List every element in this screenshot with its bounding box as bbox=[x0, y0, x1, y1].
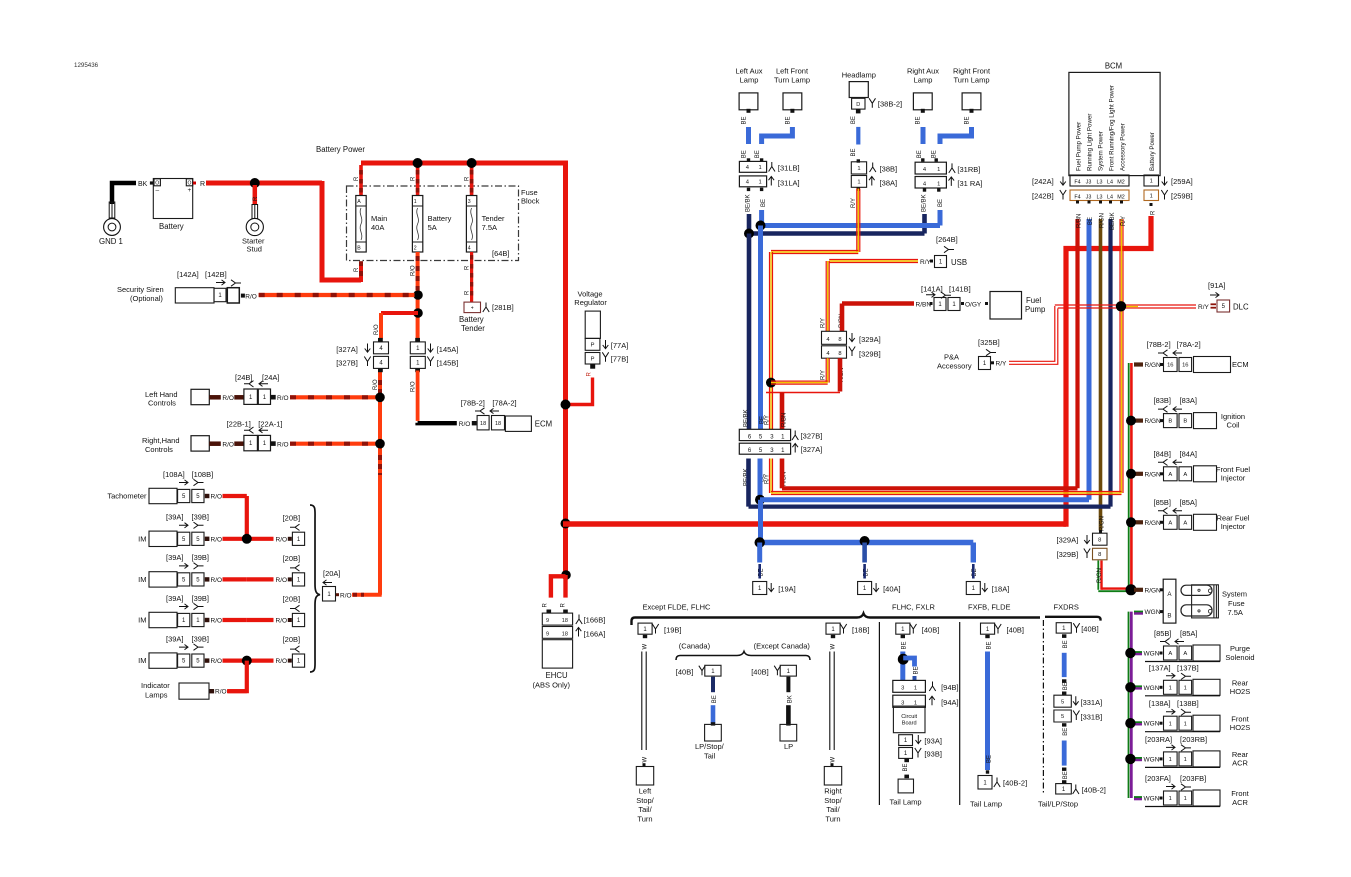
svg-text:Fuse: Fuse bbox=[1228, 599, 1245, 608]
svg-text:[331B]: [331B] bbox=[1081, 713, 1103, 722]
svg-text:[78A-2]: [78A-2] bbox=[1177, 340, 1201, 349]
svg-text:Turn: Turn bbox=[637, 814, 652, 823]
svg-text:R/BN: R/BN bbox=[1077, 214, 1083, 228]
svg-text:WGN: WGN bbox=[1144, 651, 1160, 658]
svg-text:[85B]: [85B] bbox=[1154, 629, 1172, 638]
svg-text:Regulator: Regulator bbox=[574, 298, 607, 307]
svg-text:[331A]: [331A] bbox=[1081, 698, 1103, 707]
svg-text:DLC: DLC bbox=[1233, 303, 1249, 312]
svg-text:FLHC, FXLR: FLHC, FXLR bbox=[892, 603, 936, 612]
svg-text:Battery: Battery bbox=[459, 315, 484, 324]
svg-text:[145B]: [145B] bbox=[437, 359, 459, 368]
svg-text:5A: 5A bbox=[428, 223, 437, 232]
svg-text:R: R bbox=[200, 181, 205, 188]
svg-text:[40B]: [40B] bbox=[676, 668, 694, 677]
svg-text:[203FA]: [203FA] bbox=[1145, 774, 1171, 783]
svg-text:[39A]: [39A] bbox=[166, 634, 184, 643]
svg-text:WGN: WGN bbox=[1145, 609, 1161, 616]
svg-text:FXFB, FLDE: FXFB, FLDE bbox=[968, 603, 1011, 612]
svg-text:System: System bbox=[1222, 590, 1247, 599]
svg-text:[145A]: [145A] bbox=[437, 345, 459, 354]
svg-text:Front Running/Fog Light Power: Front Running/Fog Light Power bbox=[1109, 85, 1116, 171]
svg-text:[142B]: [142B] bbox=[205, 270, 227, 279]
svg-text:R/O: R/O bbox=[340, 592, 352, 599]
svg-text:[259A]: [259A] bbox=[1171, 177, 1193, 186]
svg-text:R/GN: R/GN bbox=[1100, 213, 1106, 228]
svg-text:[325B]: [325B] bbox=[978, 338, 1000, 347]
svg-text:A: A bbox=[357, 199, 361, 205]
svg-text:[31RB]: [31RB] bbox=[957, 165, 980, 174]
svg-text:[108B]: [108B] bbox=[192, 470, 214, 479]
svg-text:5: 5 bbox=[1061, 714, 1064, 720]
svg-text:ECM: ECM bbox=[535, 420, 552, 429]
svg-text:Lamp: Lamp bbox=[914, 75, 933, 84]
svg-text:[78A-2]: [78A-2] bbox=[492, 399, 516, 408]
svg-text:8: 8 bbox=[838, 351, 841, 357]
svg-text:Controls: Controls bbox=[148, 399, 176, 408]
svg-text:O: O bbox=[188, 180, 192, 186]
svg-text:[85A]: [85A] bbox=[1180, 629, 1198, 638]
svg-text:R: R bbox=[543, 603, 549, 608]
svg-text:Stop/: Stop/ bbox=[636, 796, 654, 805]
svg-text:BE/BK: BE/BK bbox=[744, 409, 750, 427]
svg-text:System Power: System Power bbox=[1098, 131, 1105, 171]
svg-text:BE: BE bbox=[938, 199, 944, 207]
svg-text:A: A bbox=[1168, 520, 1172, 526]
svg-text:R: R bbox=[354, 267, 360, 272]
svg-text:R: R bbox=[253, 196, 259, 201]
svg-text:[64B]: [64B] bbox=[492, 249, 510, 258]
svg-text:18: 18 bbox=[562, 631, 568, 637]
svg-text:Tail Lamp: Tail Lamp bbox=[890, 798, 922, 807]
svg-text:O: O bbox=[155, 180, 159, 186]
svg-text:18: 18 bbox=[562, 618, 568, 624]
svg-text:[203RB]: [203RB] bbox=[1180, 735, 1207, 744]
svg-text:1: 1 bbox=[1184, 721, 1187, 727]
svg-text:4: 4 bbox=[468, 246, 471, 252]
svg-text:1: 1 bbox=[1184, 796, 1187, 802]
svg-text:IM: IM bbox=[138, 656, 146, 665]
svg-text:BE/BK: BE/BK bbox=[1110, 212, 1116, 230]
svg-text:IM: IM bbox=[138, 534, 146, 543]
svg-text:1: 1 bbox=[937, 167, 940, 173]
svg-text:Lamps: Lamps bbox=[145, 690, 168, 699]
svg-text:Stop/: Stop/ bbox=[824, 796, 842, 805]
svg-text:F4: F4 bbox=[1074, 194, 1080, 200]
svg-text:Stud: Stud bbox=[247, 245, 262, 254]
svg-text:[78B-2]: [78B-2] bbox=[1147, 340, 1171, 349]
svg-text:[40B]: [40B] bbox=[751, 668, 769, 677]
svg-text:Battery Power: Battery Power bbox=[1149, 132, 1156, 171]
svg-text:R/O: R/O bbox=[277, 395, 289, 402]
svg-text:R/O: R/O bbox=[373, 379, 379, 390]
svg-text:R/GN: R/GN bbox=[1145, 471, 1162, 478]
svg-text:R: R bbox=[586, 372, 592, 377]
svg-text:[329A]: [329A] bbox=[859, 335, 881, 344]
svg-text:[22B-1]: [22B-1] bbox=[227, 419, 251, 428]
svg-text:B: B bbox=[1183, 419, 1187, 425]
svg-text:BE: BE bbox=[761, 199, 767, 207]
svg-text:LP/Stop/: LP/Stop/ bbox=[695, 742, 725, 751]
svg-text:Tail Lamp: Tail Lamp bbox=[970, 800, 1002, 809]
svg-text:R: R bbox=[561, 603, 567, 608]
svg-text:Turn Lamp: Turn Lamp bbox=[954, 75, 990, 84]
svg-text:(Canada): (Canada) bbox=[679, 642, 711, 651]
svg-text:W: W bbox=[830, 644, 836, 650]
svg-text:[77B]: [77B] bbox=[611, 355, 629, 364]
svg-text:5: 5 bbox=[1061, 699, 1064, 705]
svg-text:1: 1 bbox=[1184, 685, 1187, 691]
svg-text:[78B-2]: [78B-2] bbox=[461, 399, 485, 408]
svg-text:2: 2 bbox=[414, 246, 417, 252]
svg-text:[18A]: [18A] bbox=[992, 585, 1010, 594]
svg-text:BK: BK bbox=[138, 181, 148, 188]
svg-text:1: 1 bbox=[1150, 193, 1153, 199]
svg-text:R: R bbox=[465, 290, 471, 295]
svg-text:[137B]: [137B] bbox=[1177, 663, 1199, 672]
svg-text:BE: BE bbox=[742, 150, 748, 158]
svg-text:IM: IM bbox=[138, 575, 146, 584]
svg-text:R: R bbox=[354, 176, 360, 181]
svg-text:Battery Power: Battery Power bbox=[316, 145, 365, 154]
svg-text:BE: BE bbox=[755, 150, 761, 158]
svg-text:W: W bbox=[830, 757, 836, 763]
svg-text:A: A bbox=[1183, 651, 1187, 657]
svg-text:[327B]: [327B] bbox=[801, 431, 823, 440]
svg-text:USB: USB bbox=[951, 258, 967, 267]
svg-text:Fuel Pump Power: Fuel Pump Power bbox=[1076, 122, 1083, 171]
svg-text:R/O: R/O bbox=[222, 442, 234, 449]
svg-text:BCM: BCM bbox=[1105, 62, 1122, 71]
svg-text:BE: BE bbox=[917, 150, 923, 158]
svg-text:[281B]: [281B] bbox=[492, 303, 514, 312]
svg-text:R/Y: R/Y bbox=[1121, 216, 1127, 226]
svg-text:GND 1: GND 1 bbox=[99, 237, 123, 246]
svg-text:B: B bbox=[1167, 613, 1171, 620]
svg-text:[242B]: [242B] bbox=[1032, 192, 1054, 201]
svg-text:BE/BK: BE/BK bbox=[922, 194, 928, 212]
svg-text:[142A]: [142A] bbox=[177, 270, 199, 279]
svg-text:Turn: Turn bbox=[825, 814, 840, 823]
svg-text:[91A]: [91A] bbox=[1208, 281, 1226, 290]
svg-text:Block: Block bbox=[521, 197, 540, 206]
svg-text:1: 1 bbox=[758, 165, 761, 171]
svg-text:[94B]: [94B] bbox=[941, 683, 959, 692]
svg-text:[20B]: [20B] bbox=[283, 595, 301, 604]
svg-text:[137A]: [137A] bbox=[1149, 663, 1171, 672]
svg-text:R/GN: R/GN bbox=[1100, 516, 1106, 531]
svg-text:[203RA]: [203RA] bbox=[1145, 735, 1172, 744]
svg-text:Tail: Tail bbox=[704, 751, 716, 760]
svg-text:BE: BE bbox=[851, 148, 857, 156]
svg-text:[83B]: [83B] bbox=[1154, 396, 1172, 405]
svg-text:L3: L3 bbox=[1097, 179, 1103, 185]
svg-text:BE: BE bbox=[902, 641, 908, 649]
svg-text:R/Y: R/Y bbox=[920, 259, 932, 266]
svg-text:Tachometer: Tachometer bbox=[107, 492, 147, 501]
svg-text:A: A bbox=[1168, 472, 1172, 478]
svg-text:BE: BE bbox=[851, 116, 857, 124]
svg-text:[18B]: [18B] bbox=[852, 626, 870, 635]
svg-text:Indicator: Indicator bbox=[141, 681, 170, 690]
svg-text:BE: BE bbox=[913, 666, 919, 674]
svg-text:(Optional): (Optional) bbox=[130, 294, 163, 303]
svg-text:BE: BE bbox=[964, 116, 970, 124]
svg-text:R/O: R/O bbox=[411, 265, 417, 276]
svg-text:Left Aux: Left Aux bbox=[735, 67, 762, 76]
svg-text:R/O: R/O bbox=[222, 395, 234, 402]
svg-text:[329A]: [329A] bbox=[1057, 536, 1079, 545]
svg-text:B: B bbox=[1168, 419, 1172, 425]
svg-text:Coil: Coil bbox=[1227, 420, 1240, 429]
svg-text:[141B]: [141B] bbox=[949, 285, 971, 294]
svg-text:R/O: R/O bbox=[276, 577, 288, 584]
svg-text:Circuit: Circuit bbox=[901, 714, 917, 720]
svg-text:[31LB]: [31LB] bbox=[778, 164, 800, 173]
svg-text:[19A]: [19A] bbox=[778, 585, 796, 594]
svg-text:1: 1 bbox=[1169, 685, 1172, 691]
svg-text:[84B]: [84B] bbox=[1154, 449, 1172, 458]
svg-text:R/GN: R/GN bbox=[1145, 362, 1162, 369]
svg-text:7.5A: 7.5A bbox=[482, 223, 497, 232]
svg-text:BE: BE bbox=[1063, 682, 1069, 690]
svg-text:BE: BE bbox=[741, 116, 747, 124]
svg-text:[39B]: [39B] bbox=[192, 594, 210, 603]
svg-text:Tail/: Tail/ bbox=[638, 805, 652, 814]
svg-text:[77A]: [77A] bbox=[611, 341, 629, 350]
svg-text:+: + bbox=[471, 305, 474, 311]
svg-text:A: A bbox=[1183, 520, 1187, 526]
svg-text:Pump: Pump bbox=[1025, 305, 1046, 314]
svg-text:Right Aux: Right Aux bbox=[907, 67, 939, 76]
svg-text:[20B]: [20B] bbox=[283, 513, 301, 522]
svg-text:LP: LP bbox=[784, 742, 793, 751]
svg-text:Headlamp: Headlamp bbox=[842, 70, 876, 79]
svg-text:(Except Canada): (Except Canada) bbox=[754, 642, 811, 651]
svg-text:[40B]: [40B] bbox=[1081, 625, 1099, 634]
svg-text:[39B]: [39B] bbox=[192, 634, 210, 643]
svg-text:BE: BE bbox=[785, 116, 791, 124]
svg-text:[85B]: [85B] bbox=[1154, 498, 1172, 507]
svg-text:BE: BE bbox=[932, 150, 938, 158]
svg-text:R: R bbox=[410, 176, 416, 181]
svg-text:BE: BE bbox=[1088, 217, 1094, 225]
svg-text:[94A]: [94A] bbox=[941, 698, 959, 707]
svg-text:BE: BE bbox=[712, 695, 718, 703]
svg-text:R/Y: R/Y bbox=[851, 198, 857, 208]
svg-text:Accessory Power: Accessory Power bbox=[1120, 123, 1127, 171]
svg-text:Injector: Injector bbox=[1221, 474, 1246, 483]
svg-text:BE: BE bbox=[1063, 771, 1069, 779]
svg-text:[24A]: [24A] bbox=[262, 373, 280, 382]
svg-text:R/GN: R/GN bbox=[1145, 587, 1162, 594]
svg-text:Left Front: Left Front bbox=[776, 67, 809, 76]
svg-text:Controls: Controls bbox=[145, 445, 173, 454]
svg-text:R/O: R/O bbox=[211, 536, 223, 543]
svg-text:R: R bbox=[1151, 210, 1157, 215]
svg-text:[20B]: [20B] bbox=[283, 554, 301, 563]
svg-text:R/BN: R/BN bbox=[916, 302, 932, 309]
svg-text:BE: BE bbox=[1063, 640, 1069, 648]
svg-text:[20B]: [20B] bbox=[283, 635, 301, 644]
svg-text:WGN: WGN bbox=[1144, 756, 1160, 763]
svg-text:P: P bbox=[591, 342, 595, 348]
svg-text:[93A]: [93A] bbox=[924, 737, 942, 746]
svg-text:3: 3 bbox=[901, 700, 904, 706]
svg-text:+: + bbox=[188, 187, 192, 194]
svg-text:R/O: R/O bbox=[245, 293, 257, 300]
svg-text:FXDRS: FXDRS bbox=[1054, 603, 1079, 612]
svg-text:7.5A: 7.5A bbox=[1228, 608, 1243, 617]
svg-text:Tender: Tender bbox=[461, 324, 485, 333]
svg-text:1: 1 bbox=[1184, 757, 1187, 763]
svg-text:1: 1 bbox=[914, 700, 917, 706]
svg-text:[166A]: [166A] bbox=[584, 630, 606, 639]
svg-text:[83A]: [83A] bbox=[1180, 396, 1198, 405]
svg-text:HO2S: HO2S bbox=[1230, 723, 1250, 732]
svg-text:1: 1 bbox=[1150, 179, 1153, 185]
svg-text:L4: L4 bbox=[1107, 194, 1113, 200]
svg-text:1: 1 bbox=[1169, 721, 1172, 727]
svg-text:Right Front: Right Front bbox=[953, 67, 991, 76]
svg-text:[20A]: [20A] bbox=[323, 569, 341, 578]
svg-text:BE: BE bbox=[760, 416, 766, 424]
svg-text:R/Y: R/Y bbox=[1198, 304, 1210, 311]
svg-text:P&A: P&A bbox=[944, 353, 959, 362]
svg-text:BE: BE bbox=[986, 755, 992, 763]
svg-text:[31 RA]: [31 RA] bbox=[957, 179, 982, 188]
svg-text:[40B-2]: [40B-2] bbox=[1003, 779, 1027, 788]
svg-text:3: 3 bbox=[468, 199, 471, 205]
svg-text:[38B-2]: [38B-2] bbox=[878, 100, 902, 109]
svg-text:A: A bbox=[1183, 472, 1187, 478]
svg-text:[22A-1]: [22A-1] bbox=[258, 419, 282, 428]
svg-text:[327B]: [327B] bbox=[336, 359, 358, 368]
svg-text:3: 3 bbox=[901, 686, 904, 692]
svg-text:W: W bbox=[642, 644, 648, 650]
svg-text:M2: M2 bbox=[1117, 179, 1125, 185]
svg-text:Battery: Battery bbox=[159, 222, 184, 231]
svg-text:R/O: R/O bbox=[276, 618, 288, 625]
svg-text:R/O: R/O bbox=[211, 658, 223, 665]
svg-text:Fuel: Fuel bbox=[1026, 296, 1041, 305]
svg-text:Turn Lamp: Turn Lamp bbox=[774, 75, 810, 84]
svg-text:1: 1 bbox=[857, 166, 860, 172]
svg-text:[242A]: [242A] bbox=[1032, 177, 1054, 186]
svg-text:1: 1 bbox=[1169, 757, 1172, 763]
svg-text:[166B]: [166B] bbox=[584, 616, 606, 625]
svg-text:Tail/: Tail/ bbox=[826, 805, 840, 814]
svg-text:18: 18 bbox=[480, 421, 486, 427]
svg-text:Left Hand: Left Hand bbox=[145, 390, 178, 399]
svg-text:R/O: R/O bbox=[276, 536, 288, 543]
svg-text:[38A]: [38A] bbox=[880, 179, 898, 188]
svg-text:HO2S: HO2S bbox=[1230, 687, 1250, 696]
svg-text:Right: Right bbox=[824, 787, 842, 796]
svg-text:R/O: R/O bbox=[211, 577, 223, 584]
svg-text:[264B]: [264B] bbox=[936, 235, 958, 244]
svg-text:Accessory: Accessory bbox=[937, 362, 972, 371]
svg-text:[24B]: [24B] bbox=[235, 373, 253, 382]
svg-text:Lamp: Lamp bbox=[740, 75, 759, 84]
svg-text:R/GN: R/GN bbox=[1145, 520, 1162, 527]
svg-text:8: 8 bbox=[1098, 552, 1101, 558]
svg-text:L3: L3 bbox=[1097, 194, 1103, 200]
svg-text:Right,Hand: Right,Hand bbox=[142, 436, 180, 445]
svg-text:BK: BK bbox=[788, 695, 794, 703]
svg-text:[138A]: [138A] bbox=[1149, 699, 1171, 708]
svg-text:1: 1 bbox=[1169, 796, 1172, 802]
svg-text:9: 9 bbox=[546, 631, 549, 637]
svg-text:[327A]: [327A] bbox=[336, 345, 358, 354]
svg-text:[85A]: [85A] bbox=[1180, 498, 1198, 507]
svg-text:16: 16 bbox=[1182, 363, 1188, 369]
svg-text:WGN: WGN bbox=[1144, 796, 1160, 803]
svg-text:BE: BE bbox=[916, 116, 922, 124]
svg-text:Security Siren: Security Siren bbox=[117, 285, 164, 294]
svg-text:Battery: Battery bbox=[428, 214, 452, 223]
svg-text:L4: L4 bbox=[1107, 179, 1113, 185]
svg-text:R/O: R/O bbox=[459, 421, 471, 428]
svg-text:J3: J3 bbox=[1086, 179, 1092, 185]
svg-text:Running Light Power: Running Light Power bbox=[1087, 114, 1094, 171]
svg-text:R/Y: R/Y bbox=[996, 360, 1008, 367]
svg-text:J3: J3 bbox=[1086, 194, 1092, 200]
svg-text:R/Y: R/Y bbox=[821, 318, 827, 328]
svg-text:ACR: ACR bbox=[1232, 759, 1248, 768]
svg-text:[39A]: [39A] bbox=[166, 553, 184, 562]
svg-text:[259B]: [259B] bbox=[1171, 192, 1193, 201]
svg-text:Injector: Injector bbox=[1221, 522, 1246, 531]
svg-text:R/O: R/O bbox=[374, 324, 380, 335]
svg-text:[39B]: [39B] bbox=[192, 513, 210, 522]
svg-text:1: 1 bbox=[414, 199, 417, 205]
svg-text:18: 18 bbox=[495, 421, 501, 427]
svg-text:F4: F4 bbox=[1074, 179, 1080, 185]
svg-text:1: 1 bbox=[937, 181, 940, 187]
svg-text:1295436: 1295436 bbox=[74, 62, 99, 69]
svg-text:8: 8 bbox=[1098, 537, 1101, 543]
svg-text:R/BN: R/BN bbox=[782, 413, 788, 427]
svg-text:[39A]: [39A] bbox=[166, 594, 184, 603]
svg-text:R/O: R/O bbox=[211, 494, 223, 501]
svg-text:[84A]: [84A] bbox=[1180, 449, 1198, 458]
svg-text:[327A]: [327A] bbox=[801, 445, 823, 454]
svg-text:R: R bbox=[465, 265, 471, 270]
svg-text:[108A]: [108A] bbox=[163, 470, 185, 479]
svg-text:A: A bbox=[1168, 651, 1172, 657]
svg-text:WGN: WGN bbox=[1144, 685, 1160, 692]
svg-text:[329B]: [329B] bbox=[1057, 550, 1079, 559]
svg-text:R/O: R/O bbox=[215, 689, 227, 696]
svg-text:8: 8 bbox=[838, 337, 841, 343]
svg-text:[203FB]: [203FB] bbox=[1180, 774, 1206, 783]
svg-text:[329B]: [329B] bbox=[859, 350, 881, 359]
svg-text:Tender: Tender bbox=[482, 214, 505, 223]
svg-text:1: 1 bbox=[857, 180, 860, 186]
svg-text:IM: IM bbox=[138, 616, 146, 625]
svg-text:[39A]: [39A] bbox=[166, 513, 184, 522]
svg-text:EHCU: EHCU bbox=[546, 671, 568, 680]
svg-text:Board: Board bbox=[902, 721, 917, 727]
svg-text:R/GN: R/GN bbox=[1145, 418, 1162, 425]
svg-text:[39B]: [39B] bbox=[192, 553, 210, 562]
svg-text:M2: M2 bbox=[1117, 194, 1125, 200]
svg-text:BE: BE bbox=[1063, 728, 1069, 736]
svg-text:R/O: R/O bbox=[211, 618, 223, 625]
svg-text:BE: BE bbox=[903, 763, 909, 771]
svg-text:[19B]: [19B] bbox=[664, 626, 682, 635]
